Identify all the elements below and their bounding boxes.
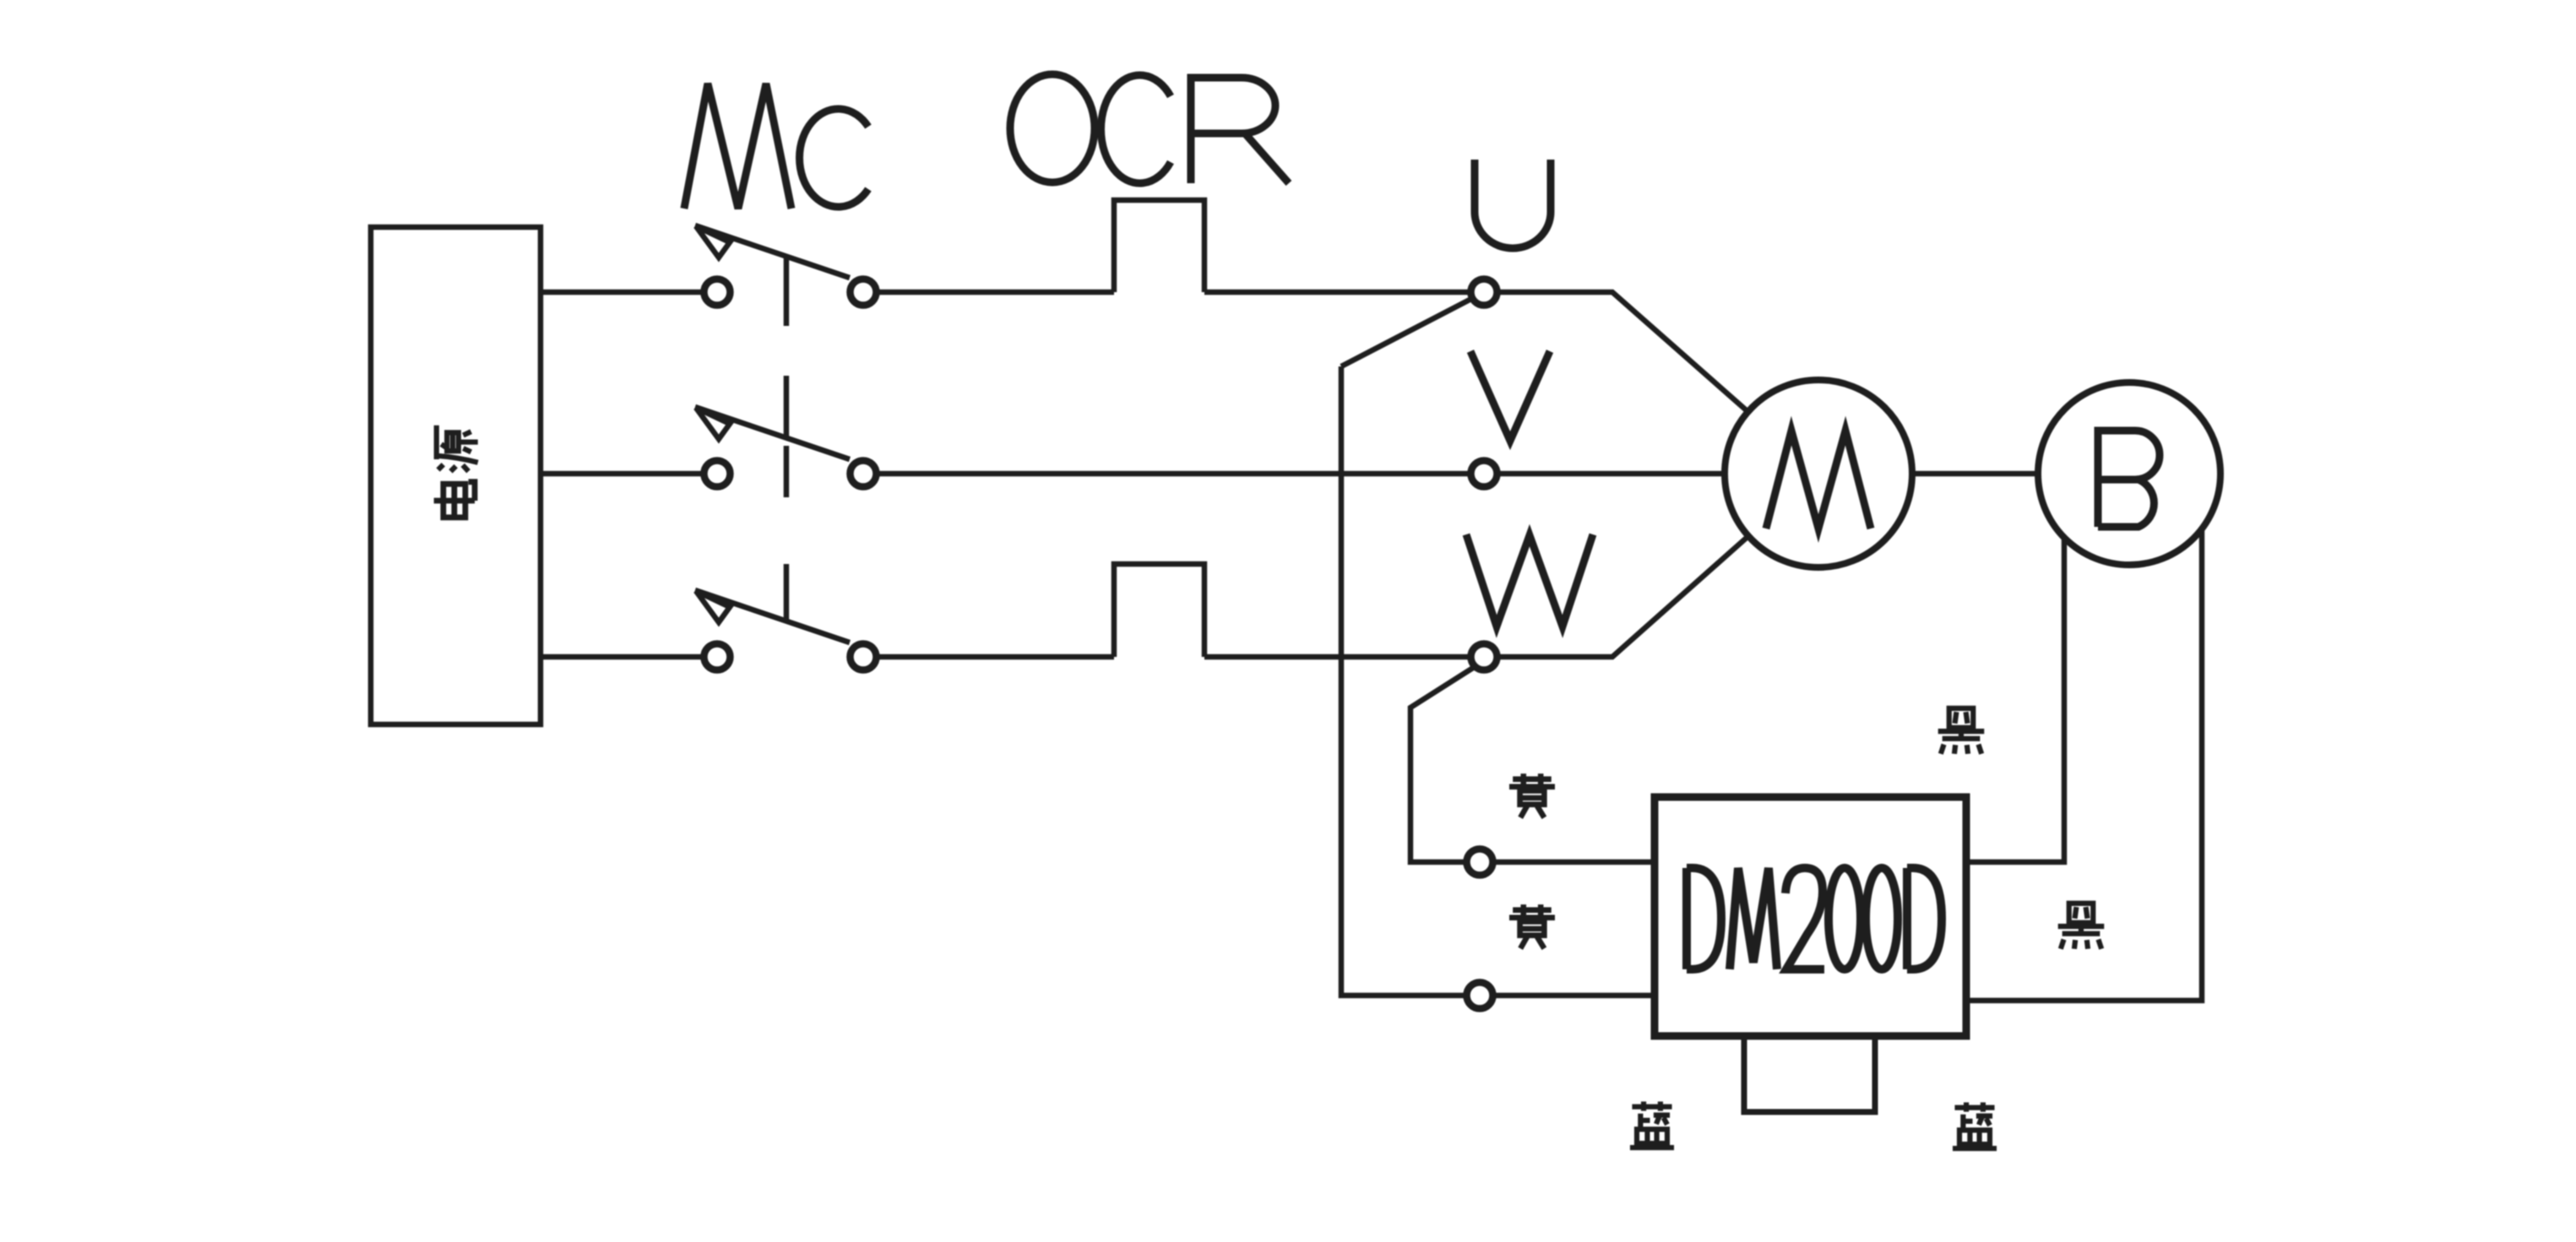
yellow lead terminal 2 (1467, 983, 1493, 1009)
motor M circle (1725, 380, 1912, 567)
label MC letter C (800, 109, 868, 207)
black lead 2 from B to DM200D (1970, 529, 2202, 1001)
wire W to DM200D branch (1410, 668, 1473, 862)
contactor MC pole 1 blade (695, 225, 850, 278)
label 电源 (rotated) (434, 426, 478, 518)
wire vertical branch down to DM200D (1341, 366, 1464, 995)
contactor MC pole 3 blade (695, 590, 850, 643)
label V (1470, 351, 1550, 441)
wire L3 from MC to OCR (879, 654, 1114, 660)
black lead 1 from B to DM200D (1970, 538, 2064, 862)
terminal W (1471, 644, 1497, 670)
wire U to motor M (1500, 292, 1748, 412)
label 蓝 left (1630, 1102, 1674, 1148)
MC mechanical link (dashed) (784, 258, 790, 622)
yellow lead terminal 1 (1467, 849, 1493, 876)
label W (1466, 534, 1593, 626)
wire yellow lead 2 into DM200D (1496, 993, 1655, 999)
label OCR letter R (1191, 78, 1289, 183)
label DM200D digit 2 (1785, 868, 1824, 969)
label MC letter M (684, 84, 791, 209)
label DM200D digit 0 second (1866, 868, 1898, 969)
wire V to motor M (1500, 471, 1725, 477)
label DM200D letter D (1687, 868, 1721, 969)
contactor MC pole 2 left terminal (704, 461, 731, 487)
OCR heater element on L3 (1114, 564, 1204, 657)
wire L3 from OCR to W (1204, 654, 1468, 660)
wire L1 from source to MC (543, 290, 701, 296)
terminal V (1471, 461, 1497, 487)
label OCR letter C (1101, 75, 1171, 183)
label DM200D digit 0 (1829, 868, 1861, 969)
brake B circle (2038, 382, 2220, 565)
OCR heater element on L1 (1114, 200, 1204, 292)
contactor MC pole 1 right terminal (851, 279, 877, 306)
label DM200D letter D second (1907, 868, 1942, 969)
wire L1 from MC to OCR (879, 290, 1114, 296)
label 黄 lower (1509, 904, 1555, 948)
contactor MC pole 3 right terminal (851, 644, 877, 670)
contactor MC pole 2 blade (695, 407, 850, 459)
label U (1475, 160, 1551, 248)
contactor MC pole 2 arrowhead (696, 408, 730, 439)
label DM200D letter M (1730, 868, 1777, 969)
wire W to motor M (1500, 536, 1748, 657)
wire L1 from OCR to U (1204, 290, 1468, 296)
label 蓝 right (1953, 1103, 1997, 1149)
contactor MC pole 3 arrowhead (696, 591, 730, 622)
DM200D bottom tab (1744, 1036, 1875, 1112)
DM200D rectifier box (1655, 797, 1966, 1036)
label 黄 upper (1509, 773, 1555, 817)
wire M to B (1912, 471, 2038, 477)
wire L2 from MC to V (879, 471, 1468, 477)
brake letter B (2098, 431, 2160, 527)
contactor MC pole 2 right terminal (851, 461, 877, 487)
terminal U (1471, 279, 1497, 306)
motor letter M (1766, 431, 1871, 529)
contactor MC pole 1 left terminal (704, 279, 731, 306)
wire L3 from source to MC (543, 654, 701, 660)
label OCR letter O (1010, 74, 1095, 182)
wire L2 from source to MC (543, 471, 701, 477)
label 黑 right (2058, 903, 2105, 949)
power source box (371, 227, 541, 724)
wire U to DM200D branch (diagonal) (1341, 300, 1470, 366)
wire yellow lead 1 into DM200D (1496, 860, 1655, 865)
contactor MC pole 1 arrowhead (696, 226, 730, 258)
contactor MC pole 3 left terminal (704, 644, 731, 670)
label 黑 upper (1938, 708, 1985, 754)
